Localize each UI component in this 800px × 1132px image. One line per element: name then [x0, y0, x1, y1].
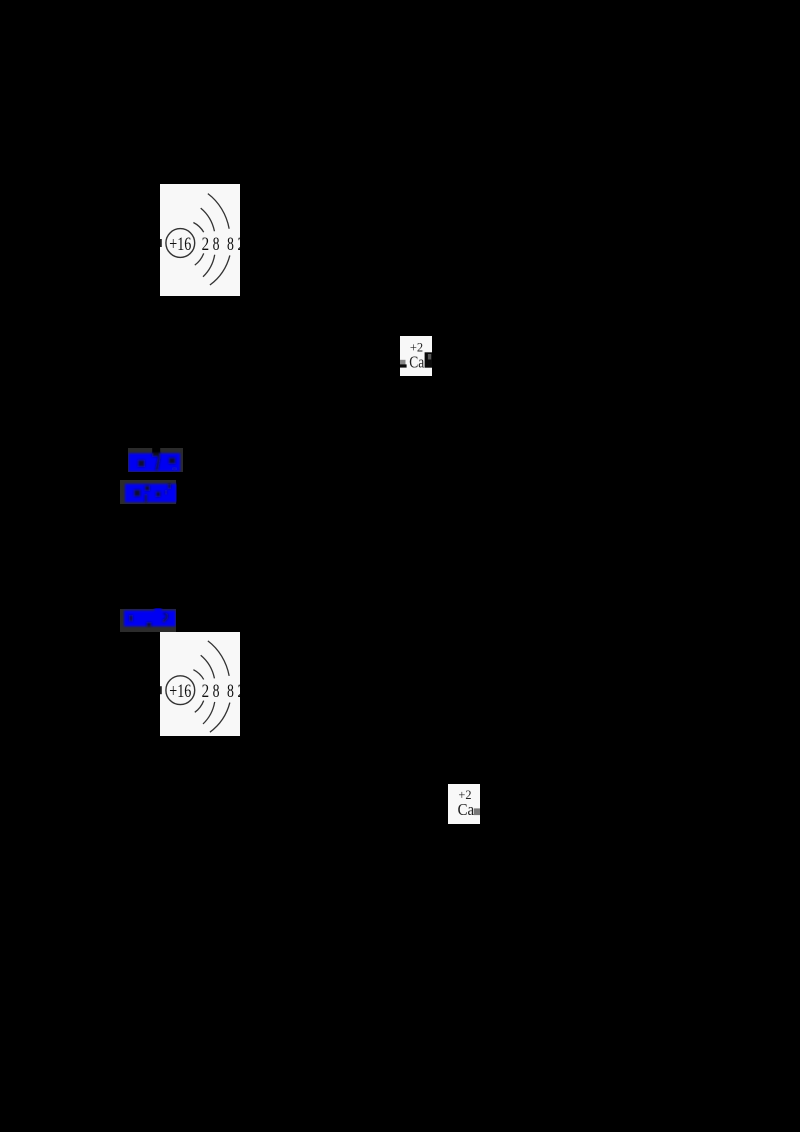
- svg-text:8: 8: [213, 681, 220, 702]
- svg-text:+16: +16: [169, 234, 191, 255]
- nucleus circle +16: [166, 228, 195, 257]
- blue label 3: [120, 609, 176, 632]
- shell arc inner upper: [193, 222, 203, 232]
- svg-text:2: 2: [237, 234, 240, 255]
- calcium ion image 1 (+2 over Ca): [400, 336, 433, 376]
- shell arc outer lower: [210, 255, 230, 285]
- svg-text:Ca: Ca: [409, 352, 424, 371]
- shell arc middle lower: [203, 255, 215, 277]
- calcium ion image 2 (+2 over Ca): [448, 784, 480, 824]
- svg-text:+16: +16: [169, 681, 191, 702]
- svg-text:Ca: Ca: [457, 800, 474, 819]
- left edge tick: [160, 239, 162, 247]
- svg-text:8: 8: [227, 681, 234, 702]
- svg-text:2: 2: [202, 681, 210, 702]
- shell arc middle upper: [201, 208, 215, 231]
- blue label 1: [128, 448, 184, 472]
- svg-text:8: 8: [212, 234, 219, 255]
- svg-text:2: 2: [237, 681, 240, 702]
- shell arc outer upper: [208, 194, 229, 229]
- atom diagram image 2 (same structure, cropped shorter): [160, 632, 240, 736]
- atom diagram image 1 (sulfur ion structure +16 / 2 8 8): [160, 184, 240, 296]
- shell arc inner lower: [195, 253, 204, 265]
- svg-text:2: 2: [201, 234, 209, 255]
- blue label 2: [120, 480, 176, 505]
- svg-text:8: 8: [227, 234, 234, 255]
